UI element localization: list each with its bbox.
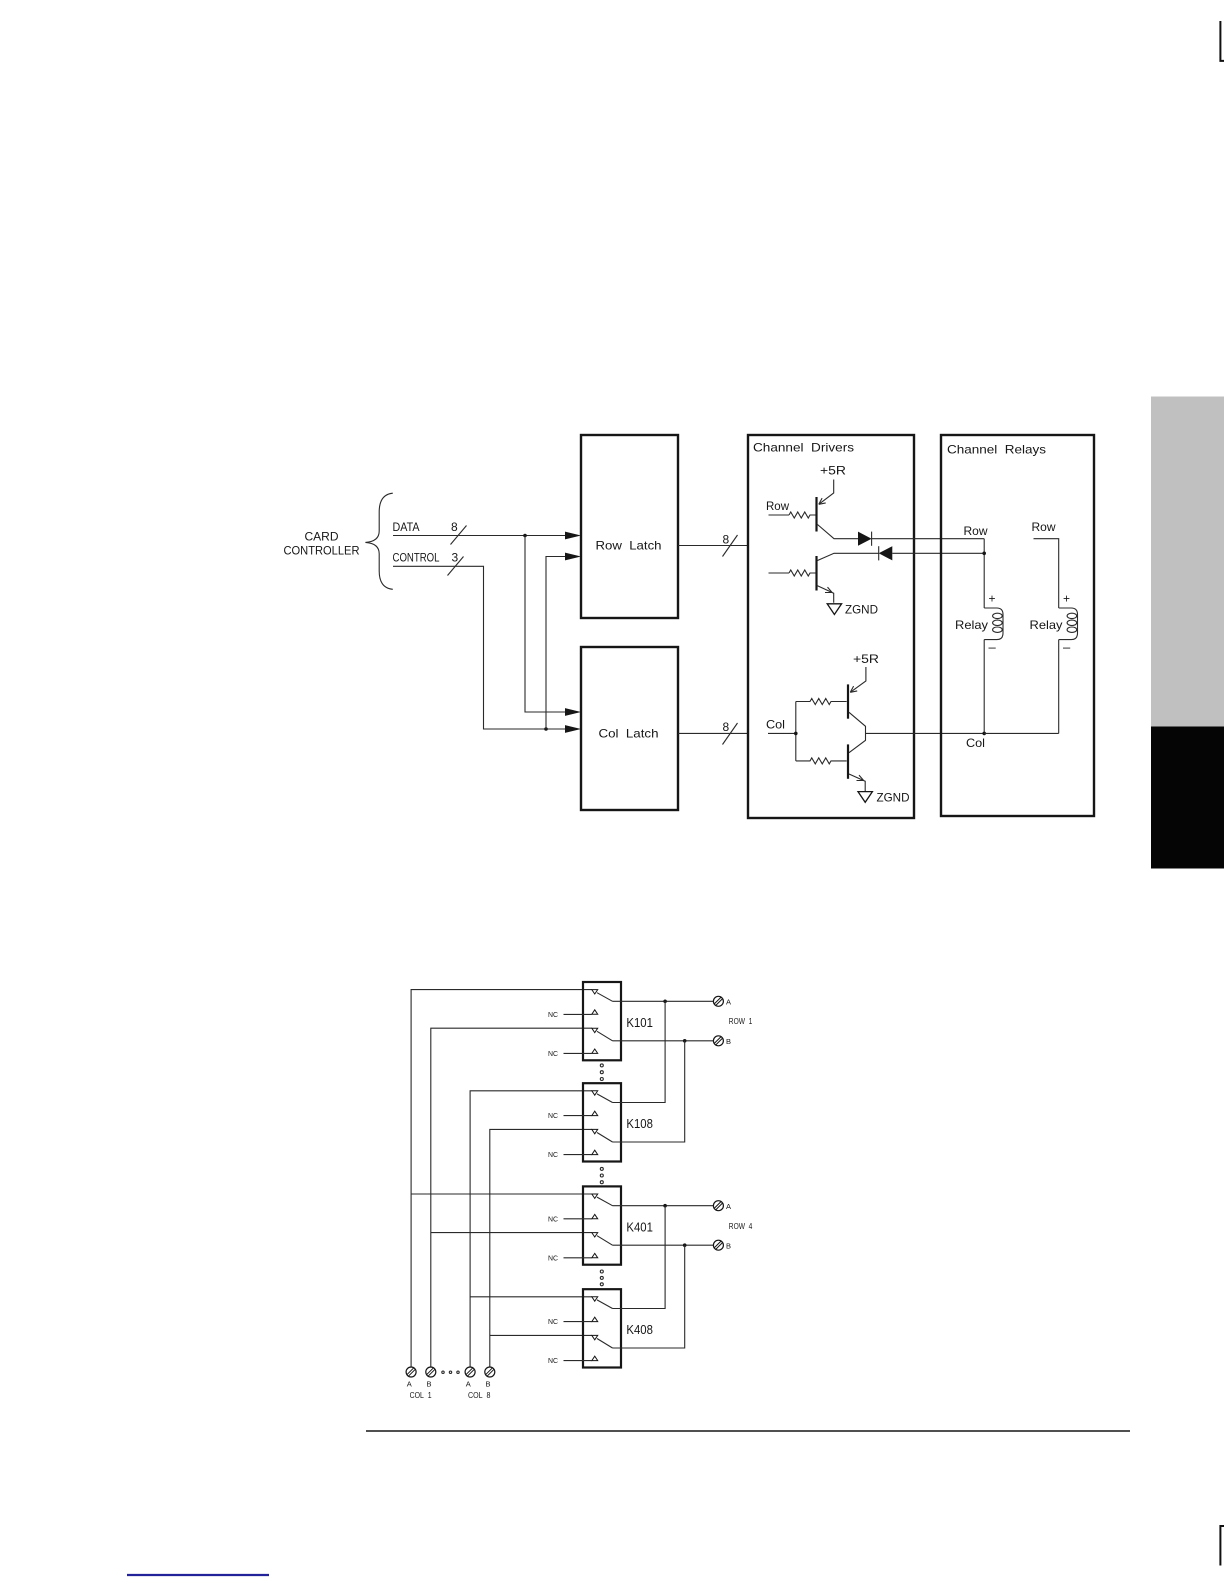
wire COL1-A vertical bus [411,990,592,1367]
K101 switch 1 NC contact [592,1010,598,1014]
svg-text:+5R: +5R [853,652,879,666]
wire K401 out B to ROW4-B terminal [613,1244,714,1246]
wire Q3 collector [849,712,866,752]
wire +5R feed to Q3 emitter [850,667,866,692]
transistor Q1 base bar [815,497,817,532]
svg-text:K108: K108 [626,1117,653,1131]
wire ROW1-A to K108 out A [613,1001,666,1102]
svg-text:B: B [726,1037,731,1046]
svg-text:8: 8 [723,533,730,547]
K108 switch 1 moving contact [592,1091,598,1095]
transistor Q3 base bar [847,684,849,718]
wire K401 NC1 stub [564,1218,592,1220]
K408 switch 1 NC contact [592,1317,598,1321]
svg-text:NC: NC [548,1253,559,1262]
relay K101 [583,982,653,1060]
page corner mark bottom-right [1220,1526,1224,1566]
wire col drive output to relays [866,732,985,734]
wire Col input [768,732,796,734]
wire K401 NC2 stub [564,1257,592,1259]
wire Q2 base input stub [769,572,790,574]
junction DATA split [523,534,527,538]
K401 switch 1 NC contact [592,1214,598,1218]
svg-text:A: A [466,1380,471,1389]
bus slash (row bus) [723,535,738,557]
K108 switch 1 NC contact [592,1111,598,1115]
svg-text:NC: NC [548,1049,559,1058]
junction ROW1-B [683,1039,687,1043]
wire Q1 collector [818,525,859,539]
bus slash (CONTROL) [448,557,464,576]
terminal ROW4-B [713,1240,731,1250]
resistor R2 (Q2 base) [789,570,816,576]
wire K108 NC1 stub [564,1115,592,1117]
svg-text:NC: NC [548,1111,559,1120]
svg-text:ZGND: ZGND [845,603,878,617]
svg-text:Row: Row [1032,520,1056,534]
wire K401 sw2 common tap [431,1232,592,1234]
block Channel Relays [941,435,1094,816]
svg-text:Col: Col [966,736,985,750]
ground ZGND symbol (col driver) [858,792,872,803]
wire row drive to relay coil [872,538,985,540]
svg-text:Col Latch: Col Latch [599,727,659,741]
arrowhead into Row Latch pin C [565,553,581,561]
wire right relay row stub [1034,539,1059,608]
terminal COL1-B [426,1367,436,1389]
K108 switch 2 NC contact [592,1150,598,1154]
wire K401 out A to ROW4-A terminal [613,1205,714,1207]
svg-text:B: B [726,1242,731,1251]
transistor Q2 base bar [815,556,817,591]
svg-text:+: + [989,592,996,606]
wire K101 NC2 stub [564,1052,592,1054]
svg-text:NC: NC [548,1317,559,1326]
wire Q4 emitter to ground [849,774,865,792]
svg-text:K401: K401 [626,1220,653,1234]
svg-text:COL 8: COL 8 [468,1391,491,1400]
wire left relay coil drop [983,539,985,608]
terminal ROW1-B [713,1036,731,1046]
ellipsis dots K401-K408 [600,1270,603,1273]
blue footer line [127,1574,269,1576]
block Channel Drivers [748,435,914,818]
wire left relay to Col bus [983,640,985,734]
terminal COL8-B [485,1367,495,1389]
junction ROW1-A [663,1000,667,1004]
svg-text:Relay: Relay [955,618,988,632]
wire K101 NC1 stub [564,1013,592,1015]
svg-text:DATA: DATA [393,522,420,534]
wire K101 out A to ROW1-A terminal [613,1000,714,1002]
junction ROW4-A [663,1204,667,1208]
diode CR1 [858,532,872,546]
brace for card controller [365,493,392,589]
wire Row input to resistor [769,514,790,516]
svg-text:K408: K408 [626,1323,653,1337]
ellipsis dots K108-K401 [600,1167,603,1170]
arrowhead into Col Latch pin C [565,725,581,733]
resistor R3 (Q3 base) [796,699,847,705]
transistor Q4 base bar [847,744,849,778]
wire DATA branch vertical to Col Latch [525,536,567,713]
junction row return tap [982,552,986,556]
diode CR2 [879,546,893,560]
wire COL8-B vertical bus [490,1129,592,1367]
wire K408 NC1 stub [564,1321,592,1323]
svg-text:CARD: CARD [305,530,339,544]
horizontal footer rule [366,1430,1130,1432]
wire Col Latch output bus [678,732,748,734]
wire COL1-B vertical bus [431,1028,592,1367]
svg-text:8: 8 [451,520,458,534]
junction CONTROL split [544,727,548,731]
K408 switch 1 moving contact [592,1297,598,1301]
svg-text:CONTROL: CONTROL [393,553,440,565]
svg-text:ROW 4: ROW 4 [729,1222,753,1231]
K101 switch 2 moving contact [592,1028,598,1032]
svg-text:B: B [485,1380,490,1389]
K401 switch 2 NC contact [592,1253,598,1257]
wire K408 sw1 common tap [470,1296,592,1298]
svg-text:Row: Row [766,499,789,513]
arrowhead into Col Latch pin D [565,708,581,716]
wire CR2 to Q2 collector [818,553,879,560]
svg-text:–: – [989,640,997,655]
wire ROW4-A to K408 out A [613,1206,666,1309]
wire K108 NC2 stub [564,1154,592,1156]
svg-text:+5R: +5R [820,464,846,478]
terminal ROW1-A [713,996,731,1006]
wire +5R feed to Q1 emitter [819,480,834,505]
wire DATA horizontal [393,535,567,537]
svg-text:NC: NC [548,1010,559,1019]
block Row Latch [581,435,678,618]
Q3 emitter arrowhead [850,686,857,692]
arrowhead into Row Latch pin D [565,532,581,540]
K401 switch 2 moving contact [592,1233,598,1237]
page corner mark top-right [1220,21,1224,61]
bus slash (col bus) [723,723,738,745]
K101 switch 1 moving contact [592,990,598,994]
relay K108 [583,1083,653,1161]
wire right relay to Col bus [1058,640,1060,734]
ground ZGND symbol (row driver) [827,604,841,615]
svg-text:NC: NC [548,1356,559,1365]
terminal ROW4-A [713,1201,731,1211]
svg-text:B: B [426,1380,431,1389]
wire Row Latch output bus [678,545,748,547]
K108 switch 2 moving contact [592,1129,598,1133]
terminal COL1-A [406,1367,416,1389]
svg-text:A: A [726,1202,731,1211]
K101 switch 2 NC contact [592,1049,598,1053]
wire K101 out B to ROW1-B terminal [613,1040,714,1042]
relay K coil (left) [984,608,1003,640]
relay K401 [583,1186,653,1264]
wire base splitter vertical [795,702,797,761]
svg-text:3: 3 [452,551,459,565]
svg-text:NC: NC [548,1150,559,1159]
wire Col bus to right relay [984,732,1058,734]
junction Col bus tap [982,732,986,736]
ellipsis dots COL1-COL8 [442,1371,444,1373]
svg-text:Row: Row [964,524,988,538]
svg-text:–: – [1063,640,1071,655]
svg-text:K101: K101 [626,1016,653,1030]
svg-text:Channel Drivers: Channel Drivers [753,441,854,455]
K408 switch 2 NC contact [592,1356,598,1360]
wire K408 NC2 stub [564,1360,592,1362]
svg-text:ZGND: ZGND [877,791,910,805]
svg-text:Col: Col [766,718,785,732]
svg-text:Relay: Relay [1030,618,1063,632]
relay K408 [583,1289,653,1367]
relay K coil (right) [1059,608,1078,640]
svg-text:COL 1: COL 1 [410,1391,432,1400]
bus slash (DATA) [451,526,467,545]
svg-text:8: 8 [723,720,730,734]
svg-text:CONTROLLER: CONTROLLER [284,544,360,558]
black chapter tab [1151,727,1224,869]
wire K401 sw1 common tap [411,1193,592,1195]
svg-text:+: + [1063,592,1070,606]
K401 switch 1 moving contact [592,1194,598,1198]
wire COL8-A vertical bus [470,1091,592,1367]
gray chapter tab [1151,397,1224,727]
block Col Latch [581,647,678,810]
svg-text:ROW 1: ROW 1 [729,1017,753,1026]
Q4 emitter arrowhead [857,775,864,780]
resistor R4 (Q4 base) [796,758,847,764]
wire Q2 emitter to ground [818,586,834,603]
K408 switch 2 moving contact [592,1335,598,1339]
junction ROW4-B [683,1243,687,1247]
svg-text:NC: NC [548,1214,559,1223]
terminal COL8-A [465,1367,475,1389]
svg-text:A: A [726,998,731,1007]
wire CONTROL horizontal and down [393,566,567,729]
svg-text:Row Latch: Row Latch [596,539,662,553]
resistor R1 (Q1 base) [789,512,816,518]
svg-text:A: A [407,1380,412,1389]
junction Col input [794,732,798,736]
Q2 emitter arrowhead [825,587,832,592]
wire relay return to diode CR2 [892,552,984,554]
ellipsis dots K101-K108 [600,1064,603,1067]
wire CONTROL branch up to Row Latch [546,557,567,730]
wire ROW4-B to K408 out B [613,1245,685,1348]
wire ROW1-B to K108 out B [613,1041,685,1142]
Q1 emitter arrowhead [819,498,826,504]
wire K408 sw2 common tap [490,1334,592,1336]
svg-text:Channel Relays: Channel Relays [947,443,1046,457]
